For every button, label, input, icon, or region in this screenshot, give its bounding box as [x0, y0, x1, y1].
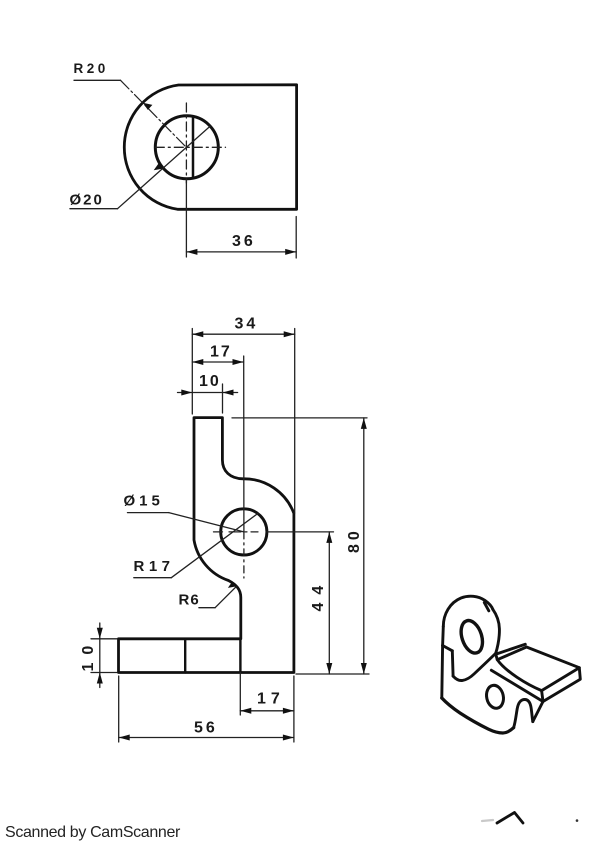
- vertical centerline / ext from 17 dim down to hole: [243, 356, 245, 532]
- arrows 56: [119, 735, 294, 741]
- arrowhead R6: [228, 581, 237, 588]
- svg-text:17: 17: [210, 344, 232, 361]
- svg-text:36: 36: [232, 233, 256, 250]
- ext 80/44 bottom: [296, 673, 369, 675]
- centerline below hole: [243, 532, 245, 578]
- arrows 80: [361, 418, 367, 674]
- svg-text:44: 44: [310, 578, 327, 612]
- svg-text:R6: R6: [179, 592, 200, 609]
- arrows 17 bottom: [240, 708, 294, 714]
- chord edge line: [192, 117, 195, 178]
- iso notch-to-step edge: [533, 702, 543, 722]
- dim line 10: [178, 392, 238, 394]
- ext 80 top: [232, 417, 367, 419]
- dimension line 36: [186, 251, 296, 253]
- outline top view D-shape: [124, 85, 296, 210]
- arrow left of dim 36: [186, 249, 197, 255]
- arrows 44: [326, 532, 332, 674]
- edge below notch through base: [239, 639, 241, 673]
- arrows 10 outside: [181, 390, 233, 396]
- leader R6 underline: [199, 607, 215, 609]
- extension line right edge: [295, 217, 297, 259]
- dim line 56: [119, 737, 294, 739]
- iso ear top seam: [484, 603, 489, 611]
- ext left10 top: [91, 638, 117, 640]
- leader R17 underline: [134, 577, 172, 579]
- iso plate inner corner edge: [451, 651, 455, 676]
- ext line 34 left: [191, 329, 193, 415]
- dim line 17 top: [192, 361, 243, 363]
- scanned by camscanner text: [5, 824, 180, 842]
- iso base bottom silhouette: [442, 698, 514, 733]
- arrows 17 top: [192, 359, 243, 365]
- horizontal centerline of hole: [214, 531, 223, 533]
- arrows left10 outside: [97, 628, 103, 684]
- faint smudge left of caret: [482, 820, 493, 821]
- iso ear left edge upper: [441, 627, 445, 646]
- dim line 80: [363, 418, 365, 674]
- iso step upper parallel edge: [496, 644, 525, 654]
- iso ear hole ellipse: [457, 618, 486, 656]
- horizontal ext to 44 dim: [267, 531, 334, 533]
- svg-text:R20: R20: [74, 61, 109, 76]
- iso base top hole ellipse: [484, 684, 505, 710]
- iso plate outer left edge: [440, 646, 444, 699]
- iso ear front arc: [493, 609, 500, 659]
- base divider edge: [184, 639, 186, 673]
- leader R20 underline: [74, 79, 121, 81]
- dim line 44: [328, 532, 330, 674]
- dim line 17 bottom: [240, 710, 294, 712]
- dim line left10: [99, 623, 101, 688]
- ext line 34 right: [294, 329, 296, 514]
- ext 56 left: [118, 676, 120, 742]
- leader R6 line: [215, 586, 236, 607]
- hole Ø15 front: [221, 509, 267, 555]
- leader Ø15 line: [169, 513, 244, 532]
- svg-text:R17: R17: [134, 558, 175, 575]
- horizontal centerline: [155, 146, 225, 148]
- svg-text:34: 34: [235, 316, 259, 333]
- arrowhead R20 on arc: [143, 103, 153, 110]
- iso ear left seam: [443, 646, 453, 651]
- iso plate-base junction wavy line: [453, 654, 495, 681]
- iso ear back arc: [443, 596, 493, 626]
- leader R20 line: [121, 80, 186, 146]
- hole circle Ø20: [155, 116, 218, 179]
- bottom right caret: [497, 813, 523, 824]
- vertical centerline: [185, 103, 187, 183]
- svg-text:Ø20: Ø20: [70, 192, 104, 209]
- iso base notch: [514, 699, 533, 727]
- leader Ø20 underline: [70, 208, 118, 210]
- leader R17 line: [171, 514, 257, 578]
- arrows 34: [192, 331, 294, 337]
- ext bottom 17 left (below notch): [239, 673, 241, 716]
- ext bottom right: [293, 676, 295, 742]
- dim line 34: [192, 333, 294, 335]
- leader Ø15 underline: [128, 512, 169, 514]
- leader Ø20 line: [118, 126, 211, 208]
- small dot bottom right: [576, 819, 579, 822]
- svg-text:10: 10: [199, 373, 221, 390]
- svg-text:10: 10: [80, 638, 97, 672]
- svg-text:17: 17: [257, 691, 285, 708]
- ext left10 bottom: [91, 672, 117, 674]
- iso step top face: [497, 647, 579, 691]
- svg-text:Ø15: Ø15: [124, 493, 164, 510]
- extension line from center down: [185, 179, 187, 257]
- iso step front-left face bottom edge: [491, 670, 543, 701]
- ext line 10 right: [222, 384, 224, 413]
- iso step right face: [542, 668, 581, 702]
- arrowhead Ø20 on circle: [154, 163, 164, 171]
- svg-text:80: 80: [346, 527, 363, 553]
- arrow right of dim 36: [285, 249, 296, 255]
- centerline dash inside hole: [229, 531, 258, 533]
- outline front view bracket: [119, 418, 294, 673]
- svg-text:56: 56: [194, 720, 218, 737]
